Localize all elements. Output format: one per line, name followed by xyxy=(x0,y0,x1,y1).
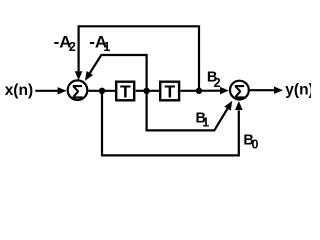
wire summer 2 to output xyxy=(250,89,275,91)
wire B1 branch: down from node w(n-1), right, diagonal into summer 2 xyxy=(147,92,228,130)
op summer U1 (sigma adder) xyxy=(68,80,88,100)
arrowhead B0 into summer 2 bottom xyxy=(235,101,243,110)
node w(n-1) junction xyxy=(143,88,149,94)
arrowhead to y(n) xyxy=(274,87,283,94)
wire T2 to summer 2 (B2 branch) xyxy=(180,90,221,92)
wire -A1 feedback: up from node w(n-1), left, diagonal into summer 1 xyxy=(90,55,147,90)
svg-text:2: 2 xyxy=(214,76,221,90)
svg-text:2: 2 xyxy=(69,40,76,54)
delay block T1 xyxy=(116,82,134,101)
arrowhead -A1 into summer 1 top-right xyxy=(85,71,93,81)
arrowhead into summer 1 xyxy=(58,87,67,94)
arrowhead into summer 2 from B2 branch xyxy=(220,87,229,94)
wire input to summer 1 xyxy=(35,90,58,92)
delay block T2 xyxy=(160,82,179,101)
svg-text:Σ: Σ xyxy=(72,83,83,104)
svg-text:x(n): x(n) xyxy=(5,82,33,99)
arrowhead B1 into summer 2 bottom-left xyxy=(224,101,232,111)
svg-text:0: 0 xyxy=(252,138,259,152)
diagram: Direct Form II biquad filter xyxy=(0,0,311,162)
wire -A2 feedback: up from node w(n-2), across top, down into summer 1 xyxy=(79,26,199,90)
svg-text:T: T xyxy=(120,82,131,102)
node w(n-2) junction xyxy=(196,88,202,94)
svg-text:Σ: Σ xyxy=(234,83,245,104)
wire summer1 to T1 xyxy=(88,90,116,92)
svg-text:1: 1 xyxy=(202,115,209,129)
arrowhead -A2 into summer 1 top xyxy=(75,71,83,80)
svg-text:T: T xyxy=(165,82,176,102)
wire T1 to T2 xyxy=(136,90,160,92)
svg-text:y(n): y(n) xyxy=(285,82,311,99)
svg-text:1: 1 xyxy=(103,40,110,54)
node w(n) junction xyxy=(99,88,105,94)
wire B0 branch: down from node w(n), along bottom, up into summer 2 xyxy=(102,92,239,155)
op summer U2 (sigma adder) xyxy=(230,81,249,100)
